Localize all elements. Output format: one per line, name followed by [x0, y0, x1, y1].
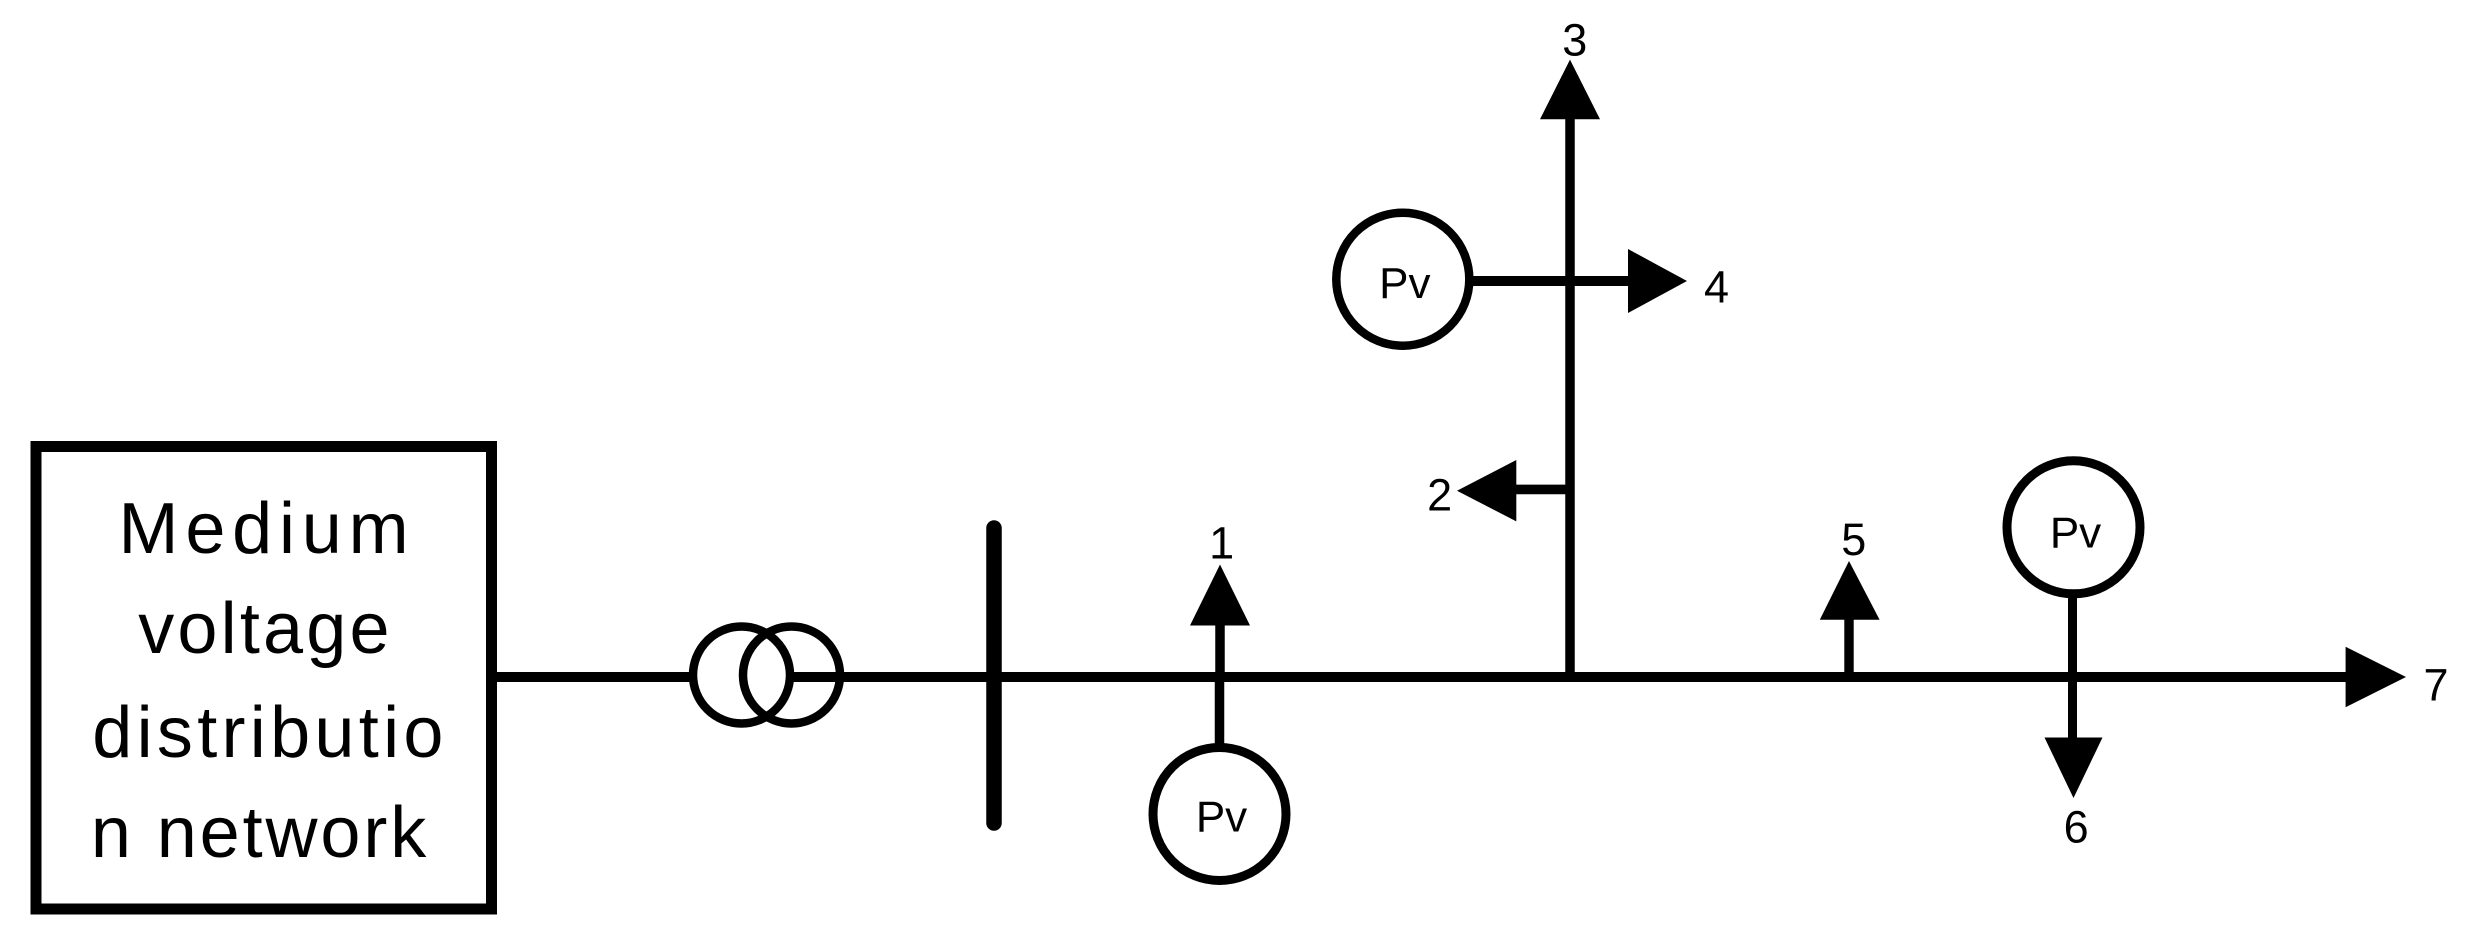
wire from Pv2 to arrow 4: [1470, 276, 1628, 286]
transformer T1: [693, 627, 840, 724]
feeder arrow 7: [2346, 647, 2406, 708]
load arrow 4: [1628, 249, 1687, 313]
svg-text:Pv: Pv: [1379, 259, 1430, 308]
svg-text:voltage: voltage: [138, 589, 393, 669]
load arrow 2: [1457, 460, 1516, 521]
svg-text:7: 7: [2423, 660, 2448, 711]
wire main feeder: [497, 672, 2351, 682]
svg-text:Medium: Medium: [119, 489, 416, 569]
load arrow 1: [1190, 565, 1250, 678]
svg-text:2: 2: [1427, 470, 1452, 521]
PV source Pv1: [1153, 748, 1286, 881]
svg-text:3: 3: [1562, 14, 1587, 65]
wire branch riser: [1565, 119, 1575, 677]
svg-text:5: 5: [1841, 514, 1866, 565]
svg-text:n network: n network: [91, 793, 429, 873]
svg-text:Pv: Pv: [1196, 793, 1247, 842]
load arrow 6: [2045, 738, 2103, 799]
svg-text:4: 4: [1704, 262, 1729, 313]
wire stub to arrow 2: [1516, 485, 1570, 495]
svg-text:6: 6: [2064, 802, 2089, 853]
wire through Pv3 down to arrow 6: [2068, 598, 2077, 739]
wire to PV source Pv1: [1215, 677, 1225, 750]
PV source Pv3: [2007, 461, 2140, 594]
busbar: [986, 528, 1002, 823]
svg-text:distributio: distributio: [92, 693, 447, 773]
node box: medium voltage distribution network: [36, 447, 492, 910]
svg-text:1: 1: [1209, 517, 1234, 568]
load arrow 5: [1820, 561, 1880, 677]
PV source Pv2: [1336, 213, 1469, 346]
svg-text:Pv: Pv: [2050, 508, 2101, 557]
load arrow 3: [1540, 60, 1600, 120]
